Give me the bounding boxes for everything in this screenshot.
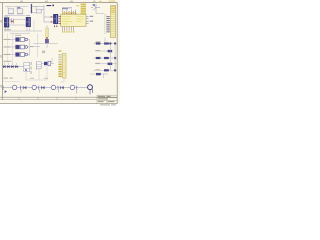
right network: row2 resistor	[108, 50, 113, 52]
top-left sub-circuit wires	[5, 7, 28, 16]
frame left border	[2, 3, 4, 100]
right network: row1 junction 2	[114, 43, 116, 45]
opto row 1 LED square	[15, 37, 19, 41]
diode D2 bar	[9, 65, 11, 68]
diode row text above	[3, 61, 11, 62]
top-right yellow label strip	[109, 0, 116, 2]
vertical dashes column mid-left	[31, 62, 37, 74]
sheet background	[0, 0, 120, 104]
lamp L1	[12, 85, 16, 89]
small opto pair mid	[44, 62, 47, 65]
left edge tick text	[1, 20, 2, 88]
right network: row2 label	[95, 50, 99, 51]
IC right net labels	[90, 16, 94, 22]
mid-top sub-circuit wires	[32, 5, 53, 22]
left text row y29	[4, 28, 11, 31]
small opto wires	[38, 58, 54, 64]
right network: row5 label	[95, 69, 99, 70]
diode D6 bar	[40, 86, 42, 89]
diode D5 bar	[22, 86, 24, 89]
connector J3 inner stripe	[56, 15, 57, 23]
IC U1 top pin red tips	[62, 13, 76, 15]
relay K1 inner lines	[24, 65, 30, 68]
right network: row5 junction	[114, 69, 116, 71]
mid connector pin lines	[63, 56, 66, 75]
lamp L5 drop	[90, 89, 93, 95]
right connector left pale strip	[104, 14, 106, 33]
top edge tick text	[20, 1, 95, 2]
right network: row1 resistor B	[104, 42, 109, 44]
wire above lamp row	[3, 81, 20, 83]
opto row 3 wires	[3, 54, 30, 56]
mid connector bottom stub	[60, 78, 64, 82]
opto row 1 left label	[4, 39, 10, 40]
bottom drop wire	[76, 90, 78, 94]
faint marks left of mid column	[30, 46, 33, 47]
title block text rows	[98, 96, 116, 105]
IC U1 bottom pin labels	[62, 31, 74, 33]
crystal symbol between J1 J2	[11, 19, 13, 24]
relay K1 box	[24, 62, 30, 71]
frame inner bottom border	[0, 96, 117, 98]
right network: row1 junction 1	[109, 43, 111, 45]
opto row 3 LED square	[15, 52, 19, 56]
IC U1 body	[61, 14, 86, 26]
below-wire stub 1	[20, 90, 22, 93]
right network: row3 junction	[114, 57, 116, 59]
J2 label text	[26, 14, 30, 17]
relay K2 box	[36, 62, 41, 69]
IC U1 left pin red tips	[59, 16, 60, 24]
bottom row start tick	[2, 86, 4, 90]
net label row above lamps	[3, 78, 12, 79]
IC U1 top pins	[63, 10, 76, 15]
right network: vertical wire 3	[102, 74, 104, 78]
IC U1 internal text mottling	[62, 16, 84, 24]
tick after L3	[57, 86, 59, 90]
opto row 3 body box	[20, 53, 24, 57]
right network: row 2 wire	[95, 50, 112, 52]
vertical wire from J2	[33, 20, 35, 32]
diode D1 bar	[5, 65, 7, 68]
opto row 2 wires	[3, 46, 30, 48]
J1 label text	[4, 15, 8, 18]
vertical wires to diode row	[8, 33, 13, 62]
bottom band column ticks	[19, 97, 76, 99]
mid-top bus bar	[31, 4, 32, 13]
lamp L2	[32, 85, 36, 89]
wires from relay down	[26, 66, 47, 80]
tick after L2	[38, 86, 40, 90]
lamp L4	[70, 85, 74, 89]
vertical wire connector J4 to network	[104, 38, 106, 44]
below-wire stub 1 diode	[5, 90, 7, 93]
right network: row6 resistor	[96, 73, 101, 75]
tick after L4	[76, 86, 78, 90]
right network: row1 resistor A	[96, 42, 101, 44]
tick after L1	[20, 86, 22, 90]
connector J1 inner stripe	[7, 18, 8, 26]
right network: row4 label	[95, 63, 99, 64]
below-wire stub 3	[57, 90, 59, 93]
diode row wire	[3, 66, 25, 68]
wires around purple component	[33, 25, 58, 48]
mid connector top label	[59, 50, 62, 51]
right network: row3 resistor A	[96, 57, 101, 59]
opto row1 top label	[15, 34, 21, 37]
J3 bottom pin red ticks	[54, 26, 57, 28]
vertical wire mid-left	[37, 33, 39, 57]
top-left small box A	[8, 9, 14, 14]
right network: row5 resistor	[104, 69, 109, 71]
frame right border	[116, 3, 118, 104]
crystal red marks	[11, 21, 14, 23]
frame middle bottom border	[0, 99, 97, 101]
wires J1-J2	[4, 20, 42, 34]
diode D3	[11, 65, 13, 68]
opto row 2 circle	[25, 46, 28, 49]
right network: row 6 wire	[90, 73, 108, 75]
right network: row4 resistor	[108, 63, 113, 65]
right connector J4 pin lines	[111, 15, 115, 36]
lamp L5 dark	[88, 85, 93, 90]
connector J2 mid gap	[26, 21, 30, 24]
right network: row3 resistor B	[104, 57, 109, 59]
net label text top	[47, 5, 54, 7]
opto row 3 left label	[4, 54, 10, 55]
diode D7	[61, 86, 64, 89]
opto row 1 body box	[20, 38, 24, 42]
right network: row 3 wire	[94, 57, 118, 59]
diode D7 bar	[60, 86, 62, 89]
wire to right connector	[96, 12, 104, 14]
connector J3 mid gap	[54, 18, 58, 21]
right network: vertical wire 2	[114, 44, 116, 70]
yellow strip bottom red tick	[46, 38, 48, 39]
IC U1 top pin text	[62, 6, 72, 9]
top-left small box B label	[18, 7, 21, 8]
top-left small box B	[17, 9, 23, 14]
wires near J3	[55, 24, 57, 27]
yellow label ladder right of IC pins	[81, 4, 86, 14]
IC U1 right pins	[86, 16, 89, 23]
mid column part: yellow strip	[46, 28, 49, 37]
relay K2 inner lines	[36, 64, 41, 66]
right connector J4 pin stripes upper (saturated)	[111, 6, 115, 13]
lamp L3	[51, 85, 55, 89]
bottom lamp row wire	[3, 87, 90, 89]
right network: vertical wire 1	[109, 44, 111, 70]
top-right yellow dot	[99, 1, 102, 3]
diode D6	[42, 86, 45, 89]
mid column part: purple component below	[45, 39, 48, 43]
J3 left pin red ticks	[51, 16, 53, 22]
top-right transistor cluster	[91, 4, 100, 12]
mid connector body	[62, 53, 66, 78]
diode D4	[15, 65, 17, 68]
frame top border	[0, 2, 117, 4]
small label left of ladder	[76, 5, 79, 6]
opto row 2 body box	[20, 45, 24, 49]
top-right cluster marks	[93, 4, 95, 5]
IC U1 left pins	[58, 16, 60, 23]
connector J3 body	[53, 14, 58, 24]
diode D3 bar	[13, 65, 15, 68]
network row1 label	[95, 41, 100, 42]
small opto body mid	[48, 61, 51, 66]
diode D5	[24, 86, 27, 89]
title block	[97, 95, 117, 104]
IC U1 pin label boxes above	[62, 12, 76, 14]
label text marks top of ladder	[62, 8, 68, 9]
mid connector left label column	[58, 54, 61, 77]
opto row 1 wires	[3, 40, 30, 56]
opto row 2 LED square	[15, 45, 19, 49]
relay K1 inner mark	[25, 69, 27, 71]
diode D4 bar	[17, 65, 19, 68]
right connector pin name text column	[107, 16, 110, 32]
diode row up stubs	[4, 63, 16, 65]
right connector J4 body	[111, 6, 116, 38]
connector J1 mid gap	[4, 21, 8, 24]
right network: row 5 wire	[94, 69, 118, 71]
mid-top small box	[36, 9, 41, 13]
relay K2 drop wire	[38, 69, 40, 80]
frame outer bottom border	[0, 103, 117, 105]
diode D2	[7, 65, 9, 68]
IC U1 bottom pins	[63, 27, 74, 31]
opto row 3 circle	[25, 53, 28, 56]
opto row 1 circle	[25, 38, 28, 41]
right network: row 1 wire	[94, 43, 118, 45]
connector J2 inner stripe	[29, 18, 30, 26]
diode D1	[3, 65, 5, 68]
connector J2 body	[26, 17, 31, 27]
labels above lamp row mid	[30, 77, 34, 80]
connector J1 body	[4, 18, 9, 28]
right network: row 4 wire	[95, 63, 117, 65]
below-wire stub 2	[38, 90, 40, 93]
opto row 2 left label	[4, 46, 10, 47]
